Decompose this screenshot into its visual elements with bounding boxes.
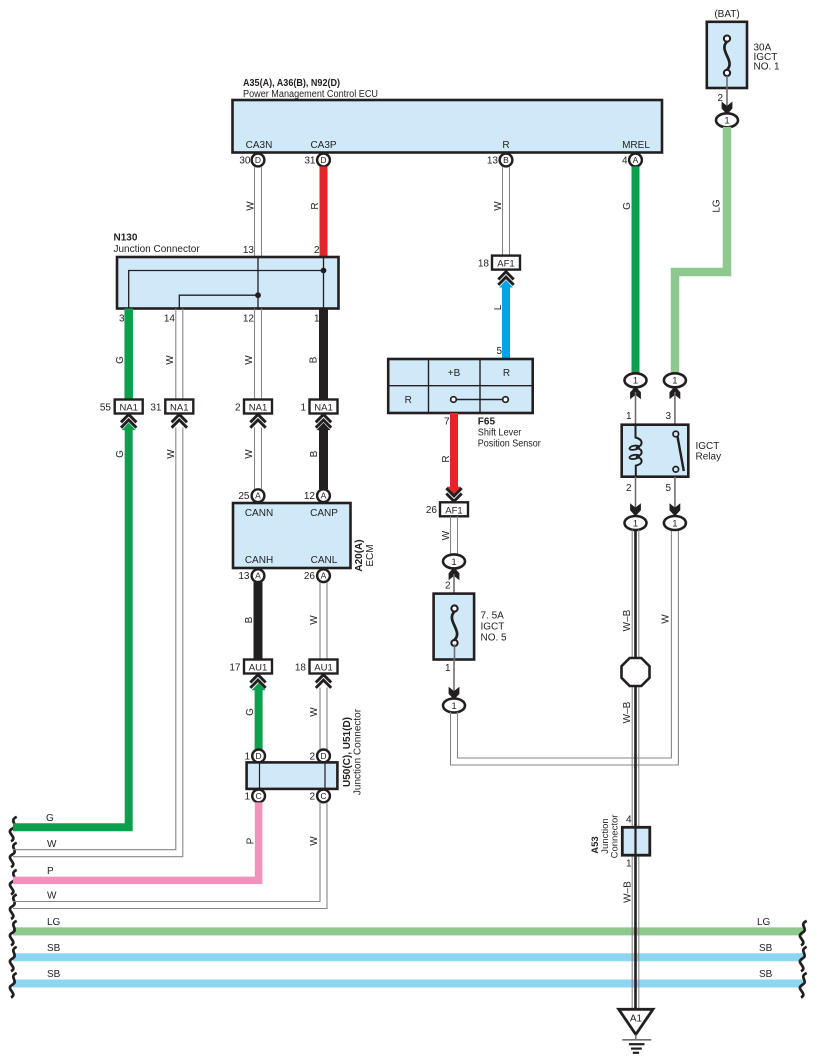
wire R from CA3P to N130 pin 2 [320,167,328,258]
svg-text:A1: A1 [630,1014,643,1025]
connector 26 AF1 [426,502,468,516]
label W above NA1 (12) [244,355,255,365]
label LG on fuse wire [712,199,723,213]
pin 13 label N130 top [243,245,255,256]
label N130 [114,233,138,244]
chevron below 1 NA1 [316,415,331,428]
label Power Management Control ECU [243,89,378,100]
fuse 7.5A IGCT NO.5 box [434,594,475,660]
svg-text:CANL: CANL [311,555,338,566]
pin name CANP [310,508,338,519]
label W below NA1 (2) [244,449,255,459]
svg-text:D: D [320,155,326,165]
label G below NA1 [115,450,126,458]
label LG bus right [757,917,771,928]
svg-text:A: A [633,155,639,165]
wire W from 26 AF1 to oval [451,516,458,555]
F65 switch contacts [451,397,509,403]
pin 2 label N130 top [314,245,320,256]
svg-text:W: W [661,614,672,624]
wire SB horizontal bus lower [13,980,803,988]
svg-text:Connector: Connector [610,815,621,859]
svg-text:LG: LG [712,199,723,213]
svg-text:W: W [166,449,177,459]
svg-text:W: W [309,707,320,717]
A53 box [622,827,650,855]
svg-text:2: 2 [717,93,723,104]
label R on CA3P wire [310,202,321,209]
chevron below 2 NA1 [250,415,265,428]
connector 18 AU1 [295,660,338,674]
svg-text:1: 1 [626,859,632,870]
svg-text:F65: F65 [478,417,496,428]
label (BAT) [714,9,739,20]
svg-text:7. 5A: 7. 5A [481,611,505,622]
connector 2 NA1 [235,400,272,414]
wire B from CANH [254,582,263,659]
svg-text:CANP: CANP [310,508,338,519]
svg-text:LG: LG [47,917,61,928]
wire stub below 7.5A fuse [453,660,455,693]
label G on MREL wire [622,202,633,210]
pin 13 (A) of ECM [238,569,264,582]
svg-text:LG: LG [757,917,771,928]
label B above NA1 [309,356,320,363]
svg-text:NA1: NA1 [249,403,267,414]
label W below U50 [309,836,320,846]
label G on AU1-U50 wire [245,708,256,716]
wire SB horizontal bus upper [13,953,803,961]
cut mark W left upper [10,843,17,868]
svg-text:NO. 1: NO. 1 [754,62,781,73]
pin 3 label of relay [665,411,671,422]
wire R from F65 pin 7 [447,413,461,494]
chevron below 18 AU1 [316,675,331,688]
arrow up into G oval [631,387,641,398]
svg-text:G: G [622,202,633,210]
chevron below 31 NA1 [172,415,187,428]
svg-text:W: W [309,615,320,625]
chevron below 55 NA1 [121,415,136,428]
svg-text:13: 13 [243,245,255,256]
svg-text:CANN: CANN [245,508,273,519]
chevron above 26 AF1 [446,488,461,501]
arrow down into oval (relay pin 5) [670,505,680,516]
wire B from NA1 to CANP [317,423,331,490]
pin 2 label of 7.5A fuse [445,581,451,592]
pin 4 (A) of ECU [622,154,642,167]
wire W from N130 pin 14 [176,309,183,400]
svg-text:W: W [165,355,176,365]
wire LG horizontal bus [13,927,803,935]
svg-text:C: C [320,791,326,801]
svg-text:NA1: NA1 [314,403,332,414]
N130 box [117,257,339,309]
svg-text:1: 1 [672,376,677,387]
pin name CANH [245,555,273,566]
pin 1 (C) of U50 [244,790,265,803]
cut mark W left lower [10,895,17,920]
pin 5 label of relay [665,483,671,494]
relay coil [629,425,641,477]
label G bus [46,813,54,824]
label SB bus lower-left [47,969,61,980]
svg-text:W–B: W–B [622,701,633,723]
svg-text:4: 4 [626,815,632,826]
label L on blue wire [493,304,504,310]
label SB bus lower-right [759,969,773,980]
svg-text:1: 1 [451,557,456,568]
svg-text:W–B: W–B [622,609,633,631]
wire stub relay pin 5 [674,477,676,510]
svg-text:2: 2 [235,403,241,414]
pin 31 (D) of ECU [304,154,330,167]
svg-text:14: 14 [164,314,176,325]
N130 internal wiring [129,257,327,309]
cut mark SB right lower [800,973,807,998]
svg-text:AU1: AU1 [249,663,267,674]
pin 2 (D) of U50 [309,750,329,763]
svg-text:G: G [115,450,126,458]
arrow up into LG oval [670,387,680,398]
svg-text:1: 1 [724,116,729,127]
label R bottom-left in F65 [405,395,412,406]
svg-text:C: C [256,791,262,801]
wire P from U50 pin 1C [13,802,259,880]
svg-text:18: 18 [478,259,490,270]
pin 3 label N130 bottom [119,314,125,325]
svg-text:W: W [493,201,504,211]
svg-text:AF1: AF1 [445,505,462,516]
pin 1 label of 7.5A fuse [445,663,451,674]
label +B in F65 [448,368,461,379]
svg-text:D: D [255,155,261,165]
arrow down into oval (below fuse) [449,688,459,699]
svg-text:25: 25 [238,491,250,502]
svg-text:2: 2 [314,245,320,256]
label A20(A) ECM [354,539,376,571]
label W bus lower [47,891,57,902]
label 30A IGCT NO. 1 [754,43,781,73]
connector oval 1 below fuse [716,113,738,127]
svg-text:Junction Connector: Junction Connector [353,708,364,795]
arrow down into oval (relay pin 2) [631,505,641,516]
pin 5 label of F65 [496,346,502,357]
svg-text:2: 2 [309,792,315,803]
pin 12 (A) of ECM [304,489,330,502]
arrow up into oval (fuse top) [449,568,459,579]
label W on relay pin5 wire [661,614,672,624]
wire G from N130 pin 3 [124,309,133,400]
svg-text:CA3N: CA3N [246,140,273,151]
connector oval above fuse IGCT NO.5 [443,554,465,568]
svg-text:2: 2 [309,752,315,763]
cut mark SB left upper [10,947,17,972]
svg-text:W: W [244,449,255,459]
svg-text:55: 55 [100,403,112,414]
wire G from MREL to relay connector [632,167,640,374]
svg-text:CANH: CANH [245,555,273,566]
svg-text:D: D [256,751,262,761]
wire stub relay pin 2 [635,477,637,510]
wire W from ECU R pin to AF1 [503,167,510,256]
svg-text:NO. 5: NO. 5 [481,633,508,644]
label B on CANH wire [244,616,255,623]
svg-text:B: B [309,450,320,457]
connector 1 NA1 [300,400,337,414]
connector oval below fuse [443,699,465,713]
pin 26 (A) of ECM [304,569,330,582]
svg-text:26: 26 [426,505,438,516]
svg-text:G: G [245,708,256,716]
label W above NA1 (14) [165,355,176,365]
svg-text:1: 1 [445,663,451,674]
svg-text:Shift Lever: Shift Lever [478,428,522,439]
wire L blue to F65 pin 5 [499,280,513,359]
svg-text:1: 1 [451,701,456,712]
wire W from AU1 to U50 pin 2D [320,688,327,750]
svg-text:13: 13 [238,571,250,582]
relay switch [673,431,684,472]
svg-text:18: 18 [295,663,307,674]
svg-text:A35(A), A36(B), N92(D): A35(A), A36(B), N92(D) [243,78,340,89]
svg-text:3: 3 [119,314,125,325]
pin name CA3N [246,140,273,151]
svg-text:IGCT: IGCT [696,441,720,452]
pin 1 (D) of U50 [244,750,265,763]
svg-text:5: 5 [496,346,502,357]
label W on CA3N wire [246,201,257,211]
svg-text:(BAT): (BAT) [714,9,739,20]
wire W from fuse oval to relay pin 5 oval [451,530,679,765]
svg-text:SB: SB [47,943,61,954]
svg-text:MREL: MREL [622,140,650,151]
label W below 26 AF1 [441,530,452,540]
svg-text:31: 31 [304,156,316,167]
pin name R [502,140,509,151]
cut mark LG left [10,921,17,946]
pin 30 (D) of ECU [239,154,264,167]
wire G long left [13,423,136,828]
cut mark SB right upper [800,947,807,972]
svg-text:B: B [244,616,255,623]
label IGCT Relay [696,441,722,463]
wire W from CANL [320,582,327,659]
svg-text:4: 4 [622,156,628,167]
svg-text:L: L [493,304,504,310]
label W-B below octagon [622,701,633,723]
pin 4 label of A53 [626,815,632,826]
U50 U51 box [247,762,338,789]
label SB bus upper-left [47,943,61,954]
pin 2 of fuse [717,93,723,104]
svg-text:Position Sensor: Position Sensor [478,439,542,450]
fuse 30A symbol [724,36,730,77]
IGCT relay box [622,425,689,477]
label R top-right in F65 [503,368,510,379]
ground symbol [622,1034,651,1052]
pin 14 label N130 bottom [164,314,176,325]
cut mark SB left lower [10,973,17,998]
pin 1 label of A53 [626,859,632,870]
wire W from CA3N to N130 pin 13 [255,167,262,258]
svg-text:5: 5 [665,483,671,494]
svg-text:U50(C), U51(D): U50(C), U51(D) [342,717,353,787]
wire W-B main [632,530,639,1009]
wire W from U50 pin 2C [13,802,327,908]
label G above NA1 [115,356,126,364]
svg-text:W: W [244,355,255,365]
label LG bus left [47,917,61,928]
label A35(A), A36(B), N92(D) [243,78,340,89]
label W-B above octagon [622,609,633,631]
pin 1 label N130 bottom [314,314,320,325]
svg-text:A: A [255,491,261,501]
svg-text:+B: +B [448,368,461,379]
svg-text:SB: SB [47,969,61,980]
pin name CANN [245,508,273,519]
wire stub to fuse 7.5A [453,574,455,594]
svg-text:31: 31 [150,403,162,414]
svg-text:B: B [503,155,509,165]
pin 2 (C) of U50 [309,790,329,803]
wire W from N130 pin 12 [255,309,262,400]
svg-text:R: R [503,368,510,379]
svg-text:2: 2 [626,483,632,494]
pin 25 (A) of ECM [238,489,264,502]
pin 7 label of F65 [444,417,450,428]
svg-text:W: W [246,201,257,211]
pin name CA3P [310,140,336,151]
label R on red wire [441,455,452,462]
svg-text:1: 1 [633,518,638,529]
pin 12 label N130 bottom [243,314,255,325]
connector oval 1 (LG wire, relay pin 3) [664,373,686,387]
label B below NA1 [309,450,320,457]
label W-B below A53 [623,881,634,903]
chevron below 17 AU1 [250,675,265,688]
pin name CANL [311,555,338,566]
svg-text:30: 30 [239,156,251,167]
cut mark G left [10,817,17,842]
connector 17 AU1 [229,660,272,674]
wire G from AU1 to U50 pin 1D [252,683,266,750]
svg-text:G: G [115,356,126,364]
label Junction Connector (N130) [114,244,201,255]
svg-text:W: W [309,836,320,846]
svg-text:1: 1 [244,752,250,763]
svg-text:R: R [441,455,452,462]
ECU box [233,100,663,153]
wire W from NA1 to CANN [255,428,262,490]
label W on AU1-U50 wire [309,707,320,717]
svg-text:17: 17 [229,663,241,674]
svg-text:G: G [46,813,54,824]
wire fuse pin 2 stub [726,76,728,107]
svg-text:W: W [47,839,57,850]
svg-text:W–B: W–B [623,881,634,903]
cut mark LG right [800,921,807,946]
svg-text:7: 7 [444,417,450,428]
pin name MREL [622,140,650,151]
svg-text:D: D [320,751,326,761]
svg-text:P: P [246,837,257,844]
svg-text:26: 26 [304,571,316,582]
svg-text:B: B [309,356,320,363]
connector oval 1 (relay pin 5 out) [664,516,686,530]
connector oval 1 (relay pin 2 out) [625,516,647,530]
label Position Sensor [478,439,542,450]
chevron below 18 AF1 [498,272,513,285]
label W below NA1 (31) [166,449,177,459]
svg-text:W: W [441,530,452,540]
label P on pink wire [246,837,257,844]
svg-text:CA3P: CA3P [310,140,336,151]
svg-text:12: 12 [243,314,255,325]
wire stub relay pin 1 [635,392,637,425]
svg-text:R: R [405,395,412,406]
wire W long left [13,428,183,857]
pin 2 label of relay [626,483,632,494]
label P bus [47,866,54,877]
svg-text:Relay: Relay [696,452,722,463]
svg-text:NA1: NA1 [119,403,137,414]
svg-text:A20(A): A20(A) [354,539,365,571]
svg-text:R: R [310,202,321,209]
svg-text:2: 2 [445,581,451,592]
svg-text:1: 1 [626,411,632,422]
svg-text:N130: N130 [114,233,138,244]
fuse 7.5A symbol [451,605,457,659]
svg-text:12: 12 [304,491,316,502]
svg-text:A: A [321,571,327,581]
cut mark P left [10,870,17,895]
svg-text:IGCT: IGCT [481,622,505,633]
ground triangle A1 [619,1009,653,1034]
connector 55 NA1 [100,400,143,414]
label W bus upper [47,839,57,850]
label W on R-pin wire [493,201,504,211]
label F65 [478,417,496,428]
octagon junction on W-B wire [622,658,650,686]
svg-text:ECM: ECM [365,544,376,566]
F65 box [388,359,533,413]
connector 31 NA1 [150,400,193,414]
svg-text:A: A [321,491,327,501]
fuse 30A IGCT NO.1 box [707,22,747,88]
label Shift Lever [478,428,522,439]
label SB bus upper-right [759,943,773,954]
svg-text:R: R [502,140,509,151]
svg-text:1: 1 [244,792,250,803]
svg-text:P: P [47,866,54,877]
label U50(C), U51(D) Junction Connector [342,708,364,795]
label A53 Junction Connector [590,815,621,859]
pin 1 label of relay [626,411,632,422]
wire stub relay pin 3 [674,392,676,425]
svg-text:NA1: NA1 [170,403,188,414]
label W on CANL wire [309,615,320,625]
svg-text:SB: SB [759,969,773,980]
svg-text:3: 3 [665,411,671,422]
svg-text:AU1: AU1 [314,663,332,674]
svg-text:SB: SB [759,943,773,954]
label 7. 5A IGCT NO. 5 [481,611,508,644]
connector oval 1 (G wire, relay pin 1) [625,373,647,387]
svg-text:1: 1 [300,403,306,414]
wire LG from fuse to relay connector [675,127,727,374]
ECM box [233,503,351,568]
